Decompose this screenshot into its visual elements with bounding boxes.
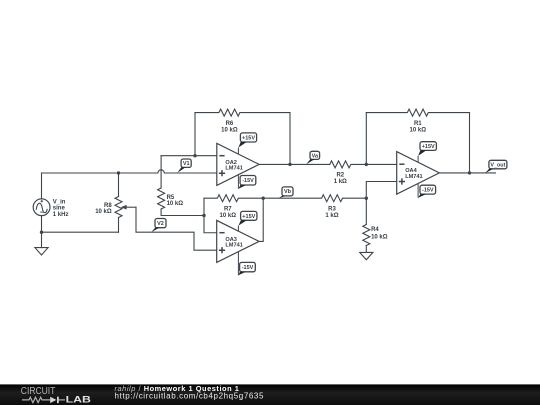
svg-text:http://circuitlab.com/cb4p2hq5: http://circuitlab.com/cb4p2hq5g7635 [115,392,265,401]
svg-text:1 kΩ: 1 kΩ [325,213,338,219]
svg-text:10 kΩ: 10 kΩ [221,127,238,133]
svg-text:R4: R4 [371,227,379,233]
svg-text:Vb: Vb [284,189,292,195]
svg-text:+15V: +15V [242,135,255,141]
svg-text:V1: V1 [183,161,190,167]
svg-text:10 kΩ: 10 kΩ [220,213,237,219]
svg-text:R8: R8 [104,203,112,209]
svg-text:LM741: LM741 [405,174,422,180]
svg-text:-15V: -15V [242,178,254,184]
svg-text:-15V: -15V [422,188,434,194]
svg-text:R1: R1 [414,121,422,127]
svg-text:R3: R3 [328,206,336,212]
svg-text:10 kΩ: 10 kΩ [371,234,388,240]
svg-text:10 kΩ: 10 kΩ [95,209,112,215]
svg-text:1 kΩ: 1 kΩ [334,179,347,185]
svg-text:sine: sine [53,206,66,212]
svg-text:R2: R2 [336,173,344,179]
svg-text:LM741: LM741 [225,166,242,172]
svg-text:-15V: -15V [242,265,254,271]
svg-text:LM741: LM741 [225,243,242,249]
svg-text:R7: R7 [224,206,232,212]
svg-text:+15V: +15V [242,214,255,220]
svg-text:V2: V2 [157,221,164,227]
svg-text:10 kΩ: 10 kΩ [410,127,427,133]
svg-text:10 kΩ: 10 kΩ [167,201,184,207]
svg-text:LAB: LAB [66,395,92,405]
svg-text:R6: R6 [226,121,234,127]
svg-text:V_out: V_out [490,162,505,168]
svg-text:CIRCUIT: CIRCUIT [21,386,56,397]
svg-text:Va: Va [312,153,319,159]
svg-text:+15V: +15V [422,144,435,150]
svg-text:1 kHz: 1 kHz [53,212,69,218]
